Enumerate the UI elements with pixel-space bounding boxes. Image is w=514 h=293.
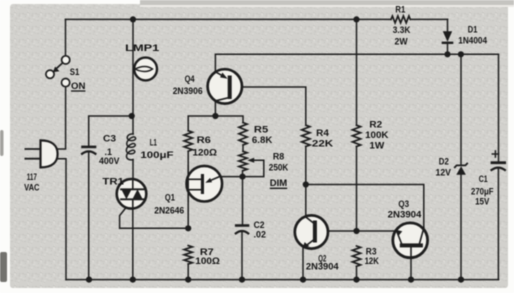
svg-text:400V: 400V — [99, 156, 120, 167]
wire Q2 emitter to bottom rail — [302, 248, 304, 279]
wire R6 bottom into Q1 base-2 / base-1 to gate node — [187, 151, 189, 228]
svg-text:R4: R4 — [316, 128, 329, 139]
svg-text:2N2646: 2N2646 — [154, 206, 184, 217]
capacitor C1 — [492, 151, 505, 170]
junction — [130, 16, 136, 22]
wire TR1 to bottom rail — [132, 208, 134, 279]
wire L1 bottom to TR1 — [132, 160, 134, 180]
svg-text:R1: R1 — [395, 4, 405, 15]
svg-text:D1: D1 — [468, 25, 478, 36]
junction — [353, 277, 359, 283]
wire R5 bottom to R8 top — [242, 145, 244, 151]
resistor R2 — [352, 125, 360, 146]
unijunction transistor Q1 — [187, 166, 223, 202]
svg-text:12K: 12K — [365, 256, 379, 267]
svg-text:DIM: DIM — [270, 178, 287, 189]
wire R8 bottom node to C2 — [242, 171, 244, 225]
wire top rail right of R1 — [410, 18, 447, 20]
wire C3 branch top — [89, 116, 132, 146]
wire D2 anode to bottom rail — [460, 175, 462, 280]
wire Q2 base / Q3 emitter horizontal — [317, 230, 396, 232]
wire C2 to bottom rail — [241, 233, 243, 280]
svg-text:2W: 2W — [395, 36, 409, 47]
junction — [300, 277, 306, 283]
junction — [130, 277, 136, 283]
svg-text:1W: 1W — [369, 141, 385, 152]
transistor Q4 (2N3906) — [208, 69, 242, 103]
junction — [353, 16, 359, 22]
junction — [458, 277, 464, 283]
svg-text:R6: R6 — [197, 135, 211, 146]
wire Q4 collector drop — [214, 101, 216, 116]
svg-text:100K: 100K — [365, 130, 388, 141]
wire node A to Q2 collector — [305, 185, 307, 217]
junction — [303, 181, 309, 187]
potentiometer R8 — [239, 151, 264, 176]
junction — [353, 228, 359, 234]
wire Q4 emitter riser and +DC rail — [215, 54, 498, 162]
svg-text:2N3906: 2N3906 — [173, 86, 203, 97]
wire R7 to bottom rail — [187, 264, 189, 280]
resistor R3 — [352, 246, 360, 266]
junction — [212, 113, 218, 119]
svg-text:.02: .02 — [254, 230, 266, 241]
junction — [239, 174, 245, 180]
lamp LMP1 — [134, 58, 157, 81]
diode D1 (1N4004) — [443, 31, 452, 43]
svg-text:3.3K: 3.3K — [393, 25, 411, 36]
switch S1 — [46, 56, 70, 87]
svg-text:TR1: TR1 — [102, 177, 124, 188]
svg-text:ON: ON — [71, 81, 85, 91]
svg-text:100Ω: 100Ω — [195, 256, 220, 267]
triac TR1 — [117, 179, 147, 209]
capacitor C3 — [82, 147, 95, 154]
wire R2 bottom to Q2 base node — [356, 147, 358, 232]
svg-text:R8: R8 — [273, 152, 285, 163]
svg-text:2N3904: 2N3904 — [306, 262, 339, 273]
junction — [86, 277, 92, 283]
wire S1 ON to plug top — [55, 87, 66, 149]
svg-text:1N4004: 1N4004 — [458, 36, 487, 47]
svg-text:D2: D2 — [439, 156, 449, 167]
zener diode D2 (12V) — [455, 164, 467, 175]
wire R4 bottom to node A — [305, 147, 307, 185]
capacitor C2 — [236, 226, 248, 234]
underline ON — [71, 90, 85, 92]
wire C3 to bottom rail — [88, 153, 90, 280]
svg-text:Q4: Q4 — [185, 74, 196, 85]
junction — [185, 225, 191, 231]
svg-text:250K: 250K — [269, 163, 289, 174]
resistor R1 — [391, 16, 410, 23]
wire bottom rail — [66, 279, 499, 281]
wire R3 to bottom rail — [356, 266, 358, 279]
junction — [444, 51, 450, 57]
transistor Q2 (2N3904) — [295, 215, 328, 248]
resistor R5 — [239, 123, 247, 146]
svg-text:S1: S1 — [70, 67, 80, 77]
resistor R7 — [184, 246, 192, 264]
underline DIM — [270, 187, 287, 189]
junction — [185, 277, 191, 283]
wire D2 branch — [460, 54, 462, 165]
junction — [458, 51, 464, 57]
wire D1 drop — [447, 19, 449, 31]
svg-text:C1: C1 — [479, 174, 488, 185]
svg-text:22K: 22K — [312, 139, 333, 150]
svg-text:LMP1: LMP1 — [125, 43, 159, 53]
transistor Q3 (2N3904) — [393, 223, 428, 258]
resistor R6 — [184, 131, 192, 152]
wire D1 cathode to +DC rail — [447, 43, 449, 55]
wire TR1 gate to R7 node — [120, 208, 189, 229]
wire R6 top corner to Q4 collector node to R5 top — [188, 116, 243, 131]
svg-text:120Ω: 120Ω — [193, 147, 218, 158]
svg-text:C3: C3 — [103, 134, 116, 145]
wire Q3 base to bottom rail — [410, 247, 412, 279]
wire Q1 emitter horizontal — [220, 176, 243, 178]
svg-text:6.8K: 6.8K — [252, 135, 272, 146]
inductor L1 — [126, 134, 135, 160]
svg-text:Q1: Q1 — [165, 193, 176, 204]
wire node A to Q3 collector — [306, 185, 424, 229]
svg-text:Q3: Q3 — [398, 199, 409, 210]
wire plug bottom to ground rail — [55, 159, 67, 280]
wire lamp / L1 / TR1 main vertical — [132, 19, 134, 134]
svg-text:100μF: 100μF — [140, 150, 173, 161]
svg-text:12V: 12V — [436, 168, 452, 179]
wire S1 drop from rail — [65, 19, 67, 55]
resistor R4 — [302, 125, 310, 146]
junction — [129, 113, 135, 119]
junction — [408, 277, 414, 283]
wire C1 to bottom rail — [497, 169, 499, 280]
wire R2 from top rail — [356, 19, 358, 125]
svg-text:VAC: VAC — [24, 182, 39, 193]
plug 117 VAC — [25, 140, 57, 167]
junction — [239, 277, 245, 283]
wire top rail left of R1 — [66, 18, 392, 20]
svg-text:2N3904: 2N3904 — [388, 210, 422, 221]
svg-text:15V: 15V — [475, 197, 490, 208]
wire Q4 base to R4 — [232, 87, 306, 125]
svg-text:R2: R2 — [369, 119, 382, 130]
svg-text:L1: L1 — [150, 138, 157, 149]
